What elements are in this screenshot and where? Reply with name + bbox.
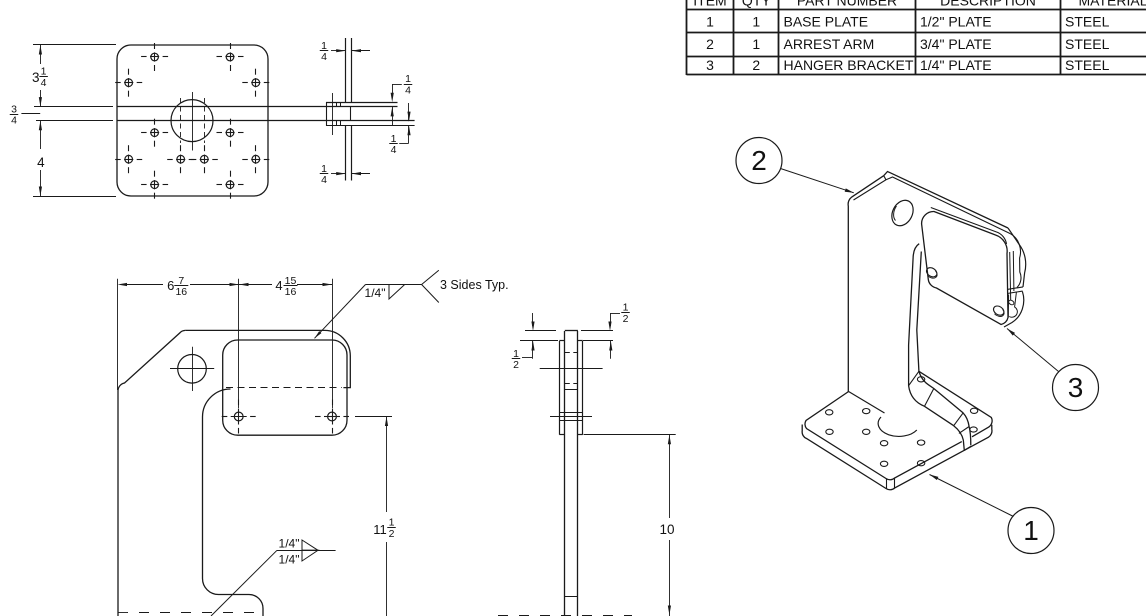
FRONT VIEW: weld symbol bottom (1/4 / 1/4 both sides) [211, 550, 277, 616]
hole at (180.7,159.2) [177, 155, 185, 163]
FRONT VIEW: inner S-profile of arm [203, 389, 264, 616]
FRONT VIEW: top dimension lines [117, 279, 119, 390]
TOP VIEW: arrest arm (horizontal band) [117, 106, 398, 108]
svg-text:6: 6 [167, 278, 174, 293]
svg-text:4: 4 [37, 155, 45, 170]
svg-text:ITEM: ITEM [693, 0, 726, 9]
TOP VIEW: base plate (rounded square) [117, 45, 268, 196]
ISO: arm end inner edge (sliver) [1011, 234, 1022, 288]
FRONT VIEW: weld symbol top (1/4 fillet, 3 Sides Typ.) [315, 285, 366, 339]
svg-text:11: 11 [373, 522, 387, 537]
svg-text:3: 3 [706, 57, 714, 73]
balloon 3 [1053, 365, 1099, 411]
svg-text:STEEL: STEEL [1065, 57, 1110, 73]
balloon 2 [736, 138, 782, 184]
hole at (238.7,416.5) [234, 412, 243, 421]
svg-text:2: 2 [623, 313, 629, 325]
ISO: oval hole in arm [888, 197, 918, 230]
svg-text:1: 1 [1023, 515, 1039, 546]
hole at (154.6,132.7) [151, 129, 159, 137]
SIDE VIEW: weld line at base [565, 596, 578, 598]
svg-text:1: 1 [752, 13, 760, 29]
ISO: base plate holes [826, 410, 833, 415]
FRONT VIEW: hanger bracket (rounded rect) [223, 340, 347, 435]
ISO: plate/base junction line [849, 392, 885, 414]
ISO: base plate bottom edges (thickness) [802, 425, 992, 490]
svg-text:BASE PLATE: BASE PLATE [784, 13, 869, 29]
ISO: curve facet seams [909, 371, 919, 385]
svg-text:16: 16 [175, 286, 187, 298]
svg-text:QTY: QTY [742, 0, 771, 9]
svg-text:16: 16 [285, 286, 297, 298]
ISO: foot bottom edge [964, 446, 971, 450]
svg-text:1/4" PLATE: 1/4" PLATE [920, 57, 992, 73]
SIDE VIEW: top extension lines [525, 330, 556, 332]
SIDE VIEW: 1/2 dim left [532, 313, 534, 326]
SIDE VIEW: centerline of arm hole [540, 368, 603, 370]
svg-text:DESCRIPTION: DESCRIPTION [940, 0, 1036, 9]
ISO: big hole in base (partial) [878, 417, 917, 436]
TOP VIEW: hidden arm hole dashes in circle [180, 98, 182, 143]
SIDE VIEW: 1/2 dim right [610, 313, 620, 315]
svg-text:2: 2 [706, 36, 714, 52]
hole at (332,416.5) [328, 412, 337, 421]
svg-text:3 Sides Typ.: 3 Sides Typ. [440, 278, 509, 292]
svg-text:1: 1 [706, 13, 714, 29]
hole at (128.7,159.2) [125, 155, 133, 163]
svg-text:ARREST ARM: ARREST ARM [784, 36, 875, 52]
svg-text:MATERIAL: MATERIAL [1079, 0, 1146, 9]
svg-text:2: 2 [389, 528, 395, 540]
FRONT VIEW: hidden line (arm bottom edge behind bracket) [226, 387, 342, 389]
TOP VIEW: hanger bracket flange plates (top+bottom) [326, 102, 398, 104]
SIDE VIEW: arrest arm plate (edge) [564, 331, 566, 616]
svg-text:4: 4 [321, 174, 327, 186]
hole at (204.3,159.2) [201, 155, 209, 163]
svg-text:4: 4 [321, 51, 327, 63]
svg-text:10: 10 [659, 522, 674, 537]
svg-text:1/4": 1/4" [365, 286, 386, 300]
TOP VIEW: left vertical dimension line [40, 45, 42, 64]
ISO: arm strip inner edge with S-curve to foot [917, 252, 971, 446]
svg-text:3: 3 [32, 70, 40, 85]
svg-text:3/4" PLATE: 3/4" PLATE [920, 36, 992, 52]
ISO: hanger bracket back face edges [931, 208, 1007, 245]
hole at (230,184.7) [226, 181, 234, 189]
hole at (154.6,57) [151, 53, 159, 61]
svg-text:2: 2 [513, 359, 519, 371]
ISO: base plate NE edge + E corner [919, 371, 992, 437]
svg-text:STEEL: STEEL [1065, 36, 1110, 52]
TOP VIEW: clamp block detail [326, 102, 328, 126]
ISO: bracket back plate edges in sliver [1010, 252, 1011, 300]
FRONT VIEW: hole in arm [178, 355, 207, 384]
balloon 1 [1008, 508, 1054, 554]
svg-text:1: 1 [752, 36, 760, 52]
ISO: base plate top face (W,S corners + SW/SE edges) [805, 392, 962, 480]
hole at (230,57) [226, 53, 234, 61]
svg-text:4: 4 [11, 115, 17, 127]
svg-text:4: 4 [275, 278, 282, 293]
ISO: hanger bracket front face [922, 211, 1008, 324]
svg-text:4: 4 [405, 84, 411, 96]
svg-text:4: 4 [391, 144, 397, 156]
ISO: hook tip detail with small hole [1008, 292, 1017, 317]
svg-text:3: 3 [1068, 372, 1084, 403]
svg-text:STEEL: STEEL [1065, 13, 1110, 29]
SIDE VIEW: bracket hole lines [559, 412, 582, 414]
SIDE VIEW: 10 dimension [584, 434, 676, 436]
hole at (154.6,184.7) [151, 181, 159, 189]
hole at (255.8,159.2) [252, 155, 260, 163]
TOP VIEW: 1/4 dim right-top (flange) [392, 84, 402, 86]
svg-text:PART NUMBER: PART NUMBER [797, 0, 897, 9]
SIDE VIEW: interior hidden lines [565, 352, 578, 354]
ISO: arm rounded end (outer outline right) [1008, 228, 1026, 287]
hole at (230,132.7) [226, 129, 234, 137]
BOM table [687, 9, 1146, 11]
TOP VIEW: hanger bracket vertical plate (edge view) [345, 38, 347, 102]
SIDE VIEW: hanger bracket side plates [559, 341, 561, 435]
TOP VIEW: 1/4 dim top (bracket plate thickness) [331, 50, 346, 52]
TOP VIEW: left dimension extension lines [33, 44, 116, 46]
ISO: arm strip below bracket, outer edge with S-curve to foot [909, 244, 965, 451]
hole at (128.7,82.7) [125, 79, 133, 87]
svg-text:4: 4 [41, 77, 47, 89]
FRONT VIEW: arrest arm outline [185, 330, 350, 387]
hole at (255.8,82.7) [252, 79, 260, 87]
TOP VIEW: 1/4 dim right-bottom (flange) [408, 103, 410, 121]
ISO: bracket holes [925, 266, 939, 279]
FRONT VIEW: bottom hidden dashes [118, 612, 263, 614]
svg-text:2: 2 [751, 145, 767, 176]
svg-text:1/4": 1/4" [279, 537, 300, 551]
TOP VIEW: 1/4 dim bottom [331, 173, 346, 175]
FRONT VIEW: 11 1/2 dimension [355, 416, 392, 418]
ISO: arrest arm tall plate left edge and chamfer [848, 176, 884, 392]
TOP VIEW: big center circle (hole) [171, 100, 213, 142]
svg-text:HANGER BRACKET: HANGER BRACKET [784, 57, 914, 73]
svg-text:2: 2 [752, 57, 760, 73]
svg-text:1/4": 1/4" [279, 553, 300, 567]
svg-text:1/2" PLATE: 1/2" PLATE [920, 13, 992, 29]
SIDE VIEW: base hidden dashes [498, 615, 632, 616]
